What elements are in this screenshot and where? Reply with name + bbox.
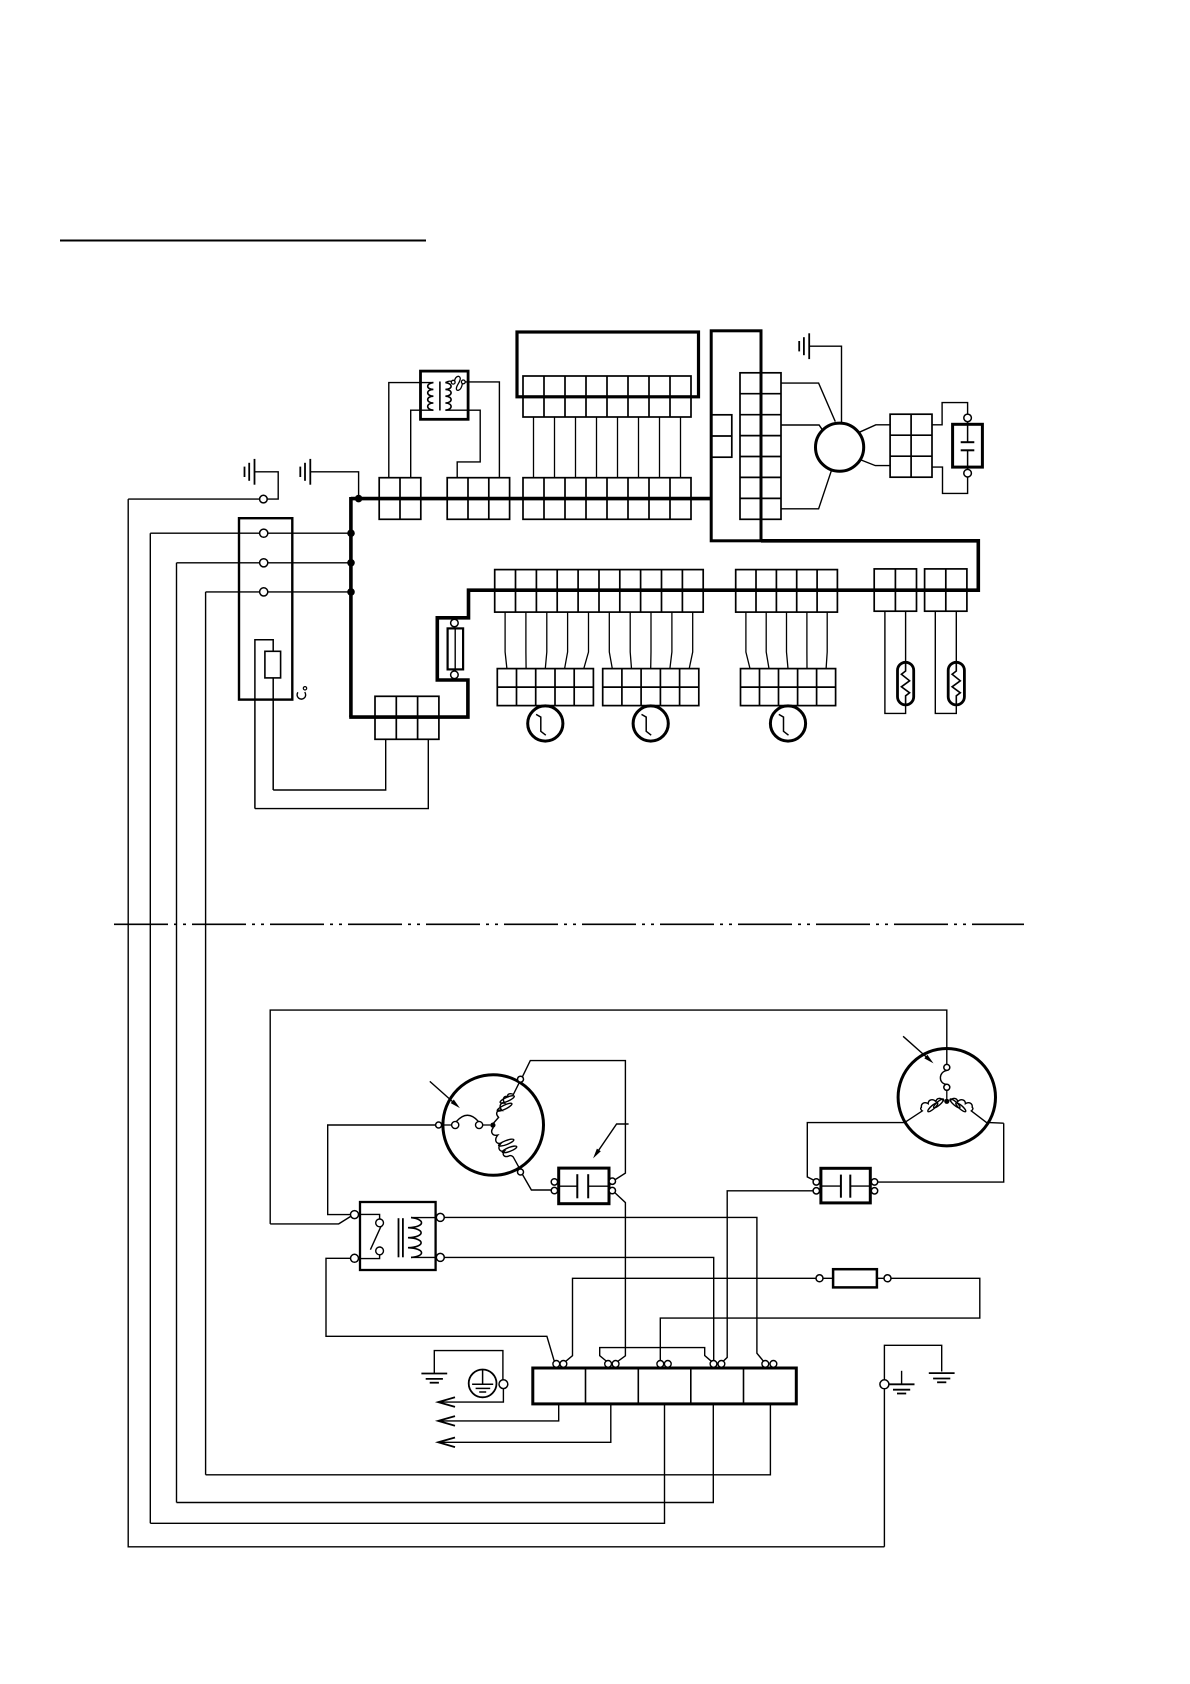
- wire M6 right to cap C3 right-top: [878, 1123, 1004, 1182]
- junction dot TB1-3: [347, 588, 355, 596]
- capacitor C1 plates: [967, 422, 969, 443]
- capacitor C2 box: [559, 1168, 609, 1204]
- louver motor M4 glyph: [779, 714, 789, 735]
- wire C3 left-bottom to terminal pair4R: [723, 1191, 813, 1361]
- relay contact feed top: [360, 1214, 380, 1219]
- wire C2 right-bottom to terminal pair2R: [615, 1193, 626, 1362]
- fuse F1 top terminal: [451, 619, 459, 627]
- wire louver lead 4: [565, 612, 568, 669]
- wire louver lead 10: [689, 612, 693, 669]
- wire primary bottom: [411, 410, 434, 478]
- motor connector block 2x7: [740, 373, 781, 520]
- relay contact circle top: [376, 1219, 384, 1227]
- wire TB2 cell5 to indoor run: [206, 1404, 771, 1475]
- wire cap C1 bottom lead: [932, 467, 968, 493]
- transformer primary coil: [428, 383, 434, 411]
- relay coil bottom link: [411, 1256, 436, 1258]
- capacitor C3 left terminals: [813, 1179, 819, 1185]
- PE terminal circle: [499, 1380, 508, 1389]
- wire TB1-1 right to bus: [268, 532, 351, 534]
- power bus thick vertical: [349, 497, 353, 717]
- transformer primary connector grid 2x2: [379, 478, 421, 520]
- terminal pair5 plug circles: [762, 1361, 769, 1368]
- wire TB2 cell2 to arrow: [438, 1404, 611, 1442]
- louver motor M3 circle: [633, 706, 668, 741]
- M5 star point dot: [490, 1123, 495, 1128]
- wire M1 lead row3: [781, 425, 823, 430]
- capacitor C2 left terminals: [551, 1179, 557, 1185]
- capacitor C3 plates: [840, 1175, 842, 1198]
- wire louver lead 5: [584, 612, 589, 669]
- thermal fuse squiggle: [445, 381, 451, 382]
- capacitor C3 box: [821, 1168, 870, 1203]
- wire G1 to earth terminal: [255, 472, 279, 499]
- wire louver lead 2: [525, 612, 527, 669]
- wire PCB pin2 down: [554, 417, 556, 478]
- ground symbol G6 small: [901, 1371, 903, 1385]
- wire PCB pin1 down: [533, 417, 535, 478]
- wire terminal-3 long run to outdoor cell5: [205, 592, 207, 1475]
- wire G2 to bus junction: [310, 472, 358, 499]
- protective earth symbol circle: [469, 1370, 497, 1398]
- thermistor body rect: [265, 651, 281, 678]
- louver connector grid 10x2: [495, 570, 704, 613]
- transformer core line: [439, 382, 441, 411]
- small connector grid 1x2: [712, 415, 732, 457]
- terminal pair1 plug circles: [553, 1361, 560, 1368]
- relay core lines: [398, 1218, 400, 1257]
- main control PCB box: [517, 332, 699, 397]
- OLP F2 body: [833, 1269, 877, 1287]
- relay contact circle bottom: [376, 1247, 384, 1255]
- M5 upper winding: [493, 1083, 519, 1124]
- PCB connector grid 8x2 top: [523, 376, 691, 417]
- M5 lower winding petals: [498, 1138, 515, 1148]
- wire relay TR to terminal pair5L: [444, 1217, 763, 1361]
- capacitor C1 top terminal: [964, 414, 972, 422]
- capacitor C2 plates: [576, 1174, 578, 1198]
- M5 inner link left: [442, 1124, 452, 1126]
- wire PE terminal to arrow: [438, 1389, 503, 1403]
- M6 left winding: [905, 1098, 944, 1122]
- indoor/outdoor dash-dot divider: [114, 923, 1024, 925]
- wire louver2 lead 4: [806, 612, 808, 669]
- wire secondary bottom: [445, 410, 480, 478]
- wire TB1-3 right to bus: [268, 591, 351, 593]
- M5 left terminal: [436, 1122, 442, 1128]
- relay R1 right terminal bottom: [436, 1253, 444, 1261]
- indicator lamp L2: [948, 662, 964, 705]
- wire OLP right to terminal pair3L: [660, 1278, 980, 1360]
- wire PCB pin8 down: [680, 417, 682, 478]
- wire TB1-2 right to bus: [268, 562, 351, 564]
- wire louver2 lead 5: [826, 612, 827, 669]
- terminal pair4 plug circles: [710, 1361, 717, 1368]
- display connector grid C 2x2: [874, 569, 916, 611]
- capacitor C2 right terminals: [609, 1178, 615, 1184]
- terminal TB1-2 circle: [260, 559, 268, 567]
- wire earth terminal up to G5: [884, 1345, 941, 1380]
- indoor terminal board TB1: [239, 518, 292, 699]
- fuse F1 bottom terminal: [451, 671, 459, 679]
- junction dot TB1-1: [347, 529, 355, 537]
- display connector grid D 2x2: [925, 569, 967, 611]
- wire lamp1 loop: [885, 611, 906, 713]
- wire louver2 lead 1: [746, 612, 750, 669]
- OLP F2 right terminal: [884, 1275, 891, 1282]
- louver motor M2 circle: [528, 706, 563, 741]
- wire TB2 cell1 to arrow: [438, 1404, 559, 1421]
- M6 star point dot: [944, 1099, 949, 1104]
- M6 right winding petals: [955, 1102, 967, 1113]
- capacitor C1 box: [953, 424, 983, 467]
- arrow pointer to M6: [903, 1036, 930, 1060]
- wire louver2 lead 2: [766, 612, 769, 669]
- stepper connector grid B 5x2: [603, 669, 699, 706]
- wire PCB pin6 down: [638, 417, 640, 478]
- indoor power connector grid 3x2: [375, 696, 439, 739]
- relay connector grid 8x2 bottom: [523, 478, 691, 520]
- wire louver lead 3: [545, 612, 547, 669]
- power bus return with fuse alcove: [349, 541, 978, 717]
- power PCB tall box: [711, 331, 761, 541]
- wire louver lead 1: [505, 612, 507, 669]
- wire TB1-1 left: [150, 532, 259, 534]
- fan motor M5 circle: [443, 1075, 544, 1176]
- heading underline rule: [60, 240, 426, 242]
- wire cap C1 top lead: [932, 403, 968, 425]
- M6 left winding petals: [927, 1102, 939, 1113]
- transformer secondary coil: [445, 383, 451, 411]
- wire PCB pin7 down: [659, 417, 661, 478]
- ground symbol G3 (fan motor earth): [799, 333, 809, 359]
- M6 top terminal: [944, 1064, 950, 1070]
- arrowhead earth: [438, 1397, 455, 1407]
- arrowhead cell2: [438, 1438, 455, 1448]
- louver motor M4 circle: [770, 706, 805, 741]
- wire relay BR to terminal pair4L: [444, 1257, 713, 1360]
- thermistor TH (room sensor) loop: [255, 640, 273, 809]
- terminal TB1-3 circle: [260, 588, 268, 596]
- louver connector grid2 5x2: [736, 570, 838, 613]
- louver motor M2 glyph: [536, 714, 546, 735]
- power bus thick horizontal: [351, 497, 711, 501]
- wire M1 lead row7: [781, 470, 832, 509]
- wire louver2 lead 3: [787, 612, 789, 669]
- capacitor connector grid 2x3: [890, 414, 932, 477]
- stepper connector grid E 5x2: [741, 669, 836, 706]
- M6 stub: [946, 1090, 948, 1099]
- wire terminal-1 long run to outdoor cell3: [149, 533, 151, 1523]
- M5 thermal protector arc: [457, 1115, 479, 1121]
- wire terminal-2 long run to outdoor cell4: [176, 563, 178, 1503]
- indicator lamp L1: [898, 662, 914, 705]
- wire fan M5 left terminal to relay: [328, 1125, 436, 1215]
- M5 top terminal: [518, 1076, 524, 1082]
- ground symbol G2 (chassis earth): [300, 459, 310, 485]
- wire earth terminal down: [883, 1389, 885, 1547]
- wire M1 right top to cap grid: [859, 425, 890, 433]
- relay R1 left terminal bottom: [351, 1254, 359, 1262]
- M5 inner circle 1: [452, 1121, 459, 1128]
- M5 bottom terminal: [518, 1169, 524, 1175]
- louver motor M3 glyph: [642, 714, 652, 735]
- terminal TB1-1 circle: [260, 529, 268, 537]
- wire G3 to motor M1: [809, 346, 841, 423]
- fuse F1 body: [448, 628, 464, 669]
- capacitor C1 bottom terminal: [964, 469, 972, 477]
- wire lamp2 top lead: [955, 611, 957, 663]
- relay coil: [408, 1218, 422, 1258]
- capacitor C3 right terminals: [871, 1179, 877, 1185]
- wire thermistor right leg to grid col1: [273, 739, 386, 790]
- wire louver lead 6: [609, 612, 612, 669]
- label °C rotated: [303, 687, 306, 690]
- M5 inner link right: [483, 1124, 491, 1126]
- wire lamp1 top lead: [905, 611, 907, 663]
- outdoor terminal block TB2: [533, 1368, 797, 1404]
- wire PCB pin5 down: [617, 417, 619, 478]
- ground symbol G4: [421, 1374, 447, 1383]
- wire earth terminal to left run: [128, 498, 259, 500]
- stepper connector grid A 5x2: [497, 669, 593, 706]
- relay R1 box: [360, 1202, 436, 1270]
- wire indoor-ground long run to outdoor earth: [128, 499, 884, 1547]
- relay contact feed bottom: [360, 1255, 380, 1259]
- wire PCB pin4 down: [596, 417, 598, 478]
- jumper wire pair2L-pair4L: [600, 1348, 712, 1362]
- wire M1 lead row1: [781, 383, 835, 422]
- M6 right winding: [950, 1098, 1004, 1123]
- wire PCB pin3 down: [575, 417, 577, 478]
- wire M5 top to cap C2 right-top: [522, 1061, 625, 1180]
- wire louver lead 9: [670, 612, 672, 669]
- wire TB1-3 left: [206, 591, 260, 593]
- M5 lower winding: [492, 1127, 520, 1169]
- wire lamp2 loop: [935, 611, 956, 713]
- wire relay BL to terminal pair1L: [326, 1258, 554, 1361]
- M5 upper winding petals: [496, 1102, 512, 1113]
- terminal pair2 plug circles: [605, 1361, 612, 1368]
- wire louver lead 8: [650, 612, 652, 669]
- relay R1 right terminal top: [436, 1213, 444, 1221]
- M5 inner circle 2: [476, 1121, 483, 1128]
- wire G4 to PE terminal: [434, 1351, 503, 1380]
- wire louver lead 7: [630, 612, 631, 669]
- outdoor earth terminal circle: [880, 1380, 889, 1389]
- wire boundary jog to relay: [270, 1216, 351, 1224]
- junction dot TB1-2: [347, 559, 355, 567]
- M6 thermal protector arc: [940, 1070, 946, 1084]
- ground symbol G1 (indoor earth): [245, 459, 255, 485]
- wire TB2 cell4 to indoor run: [177, 1404, 714, 1503]
- relay R1 left terminal top: [351, 1211, 359, 1219]
- wire outdoor supply boundary: [270, 1010, 947, 1224]
- wire secondary top: [465, 382, 499, 478]
- ground symbol G5: [929, 1373, 955, 1382]
- wire M6 left to cap C3 left-top: [807, 1123, 906, 1181]
- wire OLP left to terminal pair1R: [566, 1278, 816, 1361]
- arrowhead cell1: [438, 1416, 455, 1426]
- transformer T1 box: [421, 371, 469, 419]
- wire primary top: [389, 383, 434, 478]
- transformer secondary connector grid 3x2: [447, 478, 509, 520]
- OLP F2 left terminal: [816, 1275, 823, 1282]
- compressor M6 circle: [898, 1049, 995, 1146]
- protective earth inner marks: [482, 1370, 484, 1385]
- junction dot G2-bus: [355, 495, 363, 503]
- terminal pair3 plug circles: [657, 1361, 664, 1368]
- M6 mid terminal: [944, 1084, 950, 1090]
- relay contact blade: [370, 1226, 381, 1249]
- motor M1 circle: [816, 423, 864, 471]
- relay coil top link: [411, 1217, 436, 1219]
- arrow pointer to C2: [596, 1124, 629, 1155]
- wire TB2 cell3 to indoor run: [150, 1404, 664, 1523]
- earth terminal circle: [260, 495, 268, 503]
- arrow pointer to M5: [430, 1081, 457, 1105]
- wire TB1-2 left: [177, 562, 260, 564]
- wire M1 right bottom to cap grid: [861, 460, 890, 466]
- wire thermistor left leg to grid col3: [255, 739, 428, 808]
- wire M5 bottom to cap C2 left-bottom: [522, 1174, 551, 1190]
